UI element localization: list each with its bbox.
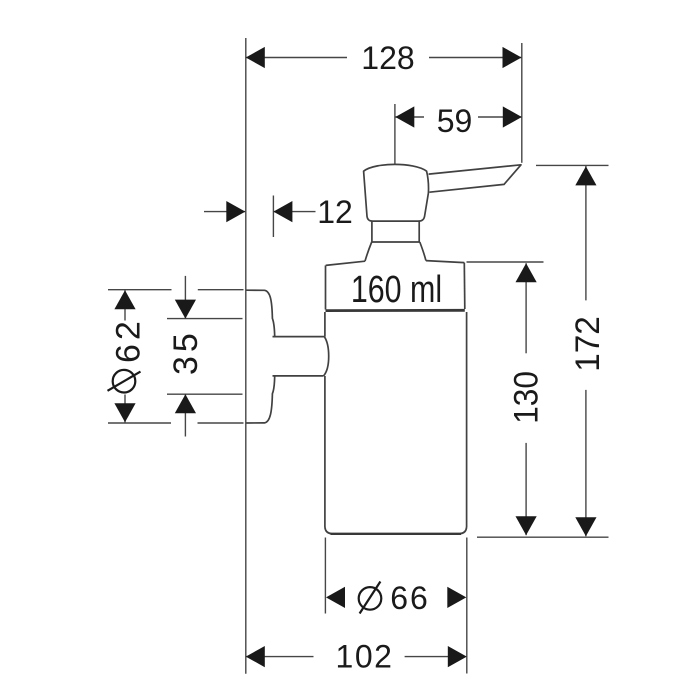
svg-text:130: 130	[506, 371, 544, 424]
svg-text:102: 102	[336, 639, 394, 675]
svg-text:128: 128	[361, 40, 414, 76]
svg-text:160 ml: 160 ml	[351, 269, 442, 311]
svg-text:35: 35	[167, 329, 205, 375]
svg-text:66: 66	[390, 580, 430, 616]
svg-text:62: 62	[110, 317, 148, 363]
svg-text:172: 172	[570, 316, 607, 372]
svg-text:12: 12	[317, 194, 353, 230]
svg-text:59: 59	[437, 103, 473, 139]
